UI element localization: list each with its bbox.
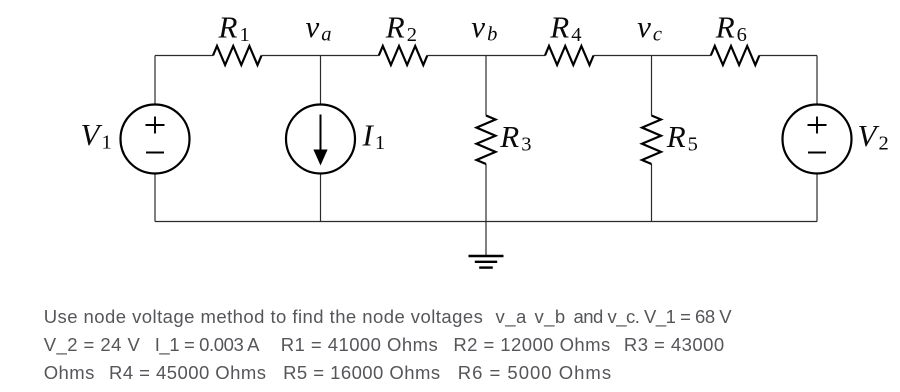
wire left vertical above V1 [154,56,156,105]
wire node A vertical below I1 [320,174,322,222]
wire node C vertical above R5 [651,56,653,116]
svg-text:va: va [306,9,332,46]
svg-text:V1: V1 [81,117,112,154]
svg-text:vc: vc [637,9,662,46]
wire top rail segment R1 to R2 (through node A) [262,55,379,57]
wire node A vertical above I1 [320,56,322,105]
wire top rail segment R2 to R4 (through node B) [427,55,545,57]
wire node B vertical above R3 [485,56,487,116]
current source I1 [286,105,355,174]
resistor R1 [213,46,262,65]
voltage source V1 [121,105,190,174]
resistor R2 [379,46,428,65]
svg-text:V2: V2 [858,118,889,155]
wire top rail segment R6 to right corner [759,55,817,57]
wire left vertical below V1 [154,174,156,222]
wire top rail segment R4 to R6 (through node C) [594,55,711,57]
svg-text:vb: vb [471,9,497,46]
svg-text:I1: I1 [362,117,386,154]
wire right vertical above V2 [816,56,818,105]
wire node B vertical below R3 [485,164,487,222]
svg-text:R4: R4 [549,10,581,47]
wire ground stem [485,222,487,256]
resistor R3 [477,116,496,165]
resistor R6 [711,46,760,65]
wire bottom rail [155,221,817,223]
resistor R4 [545,46,594,65]
wire node C vertical below R5 [651,164,653,222]
wire top rail segment V1 to R1 [155,55,213,57]
svg-text:R3: R3 [499,119,531,156]
svg-text:R2: R2 [385,10,417,47]
ground [469,256,504,268]
wire right vertical below V2 [816,174,818,222]
voltage source V2 [783,105,852,174]
svg-text:R1: R1 [218,10,250,47]
svg-text:R6: R6 [715,10,747,47]
svg-text:R5: R5 [666,119,698,156]
resistor R5 [642,116,661,165]
